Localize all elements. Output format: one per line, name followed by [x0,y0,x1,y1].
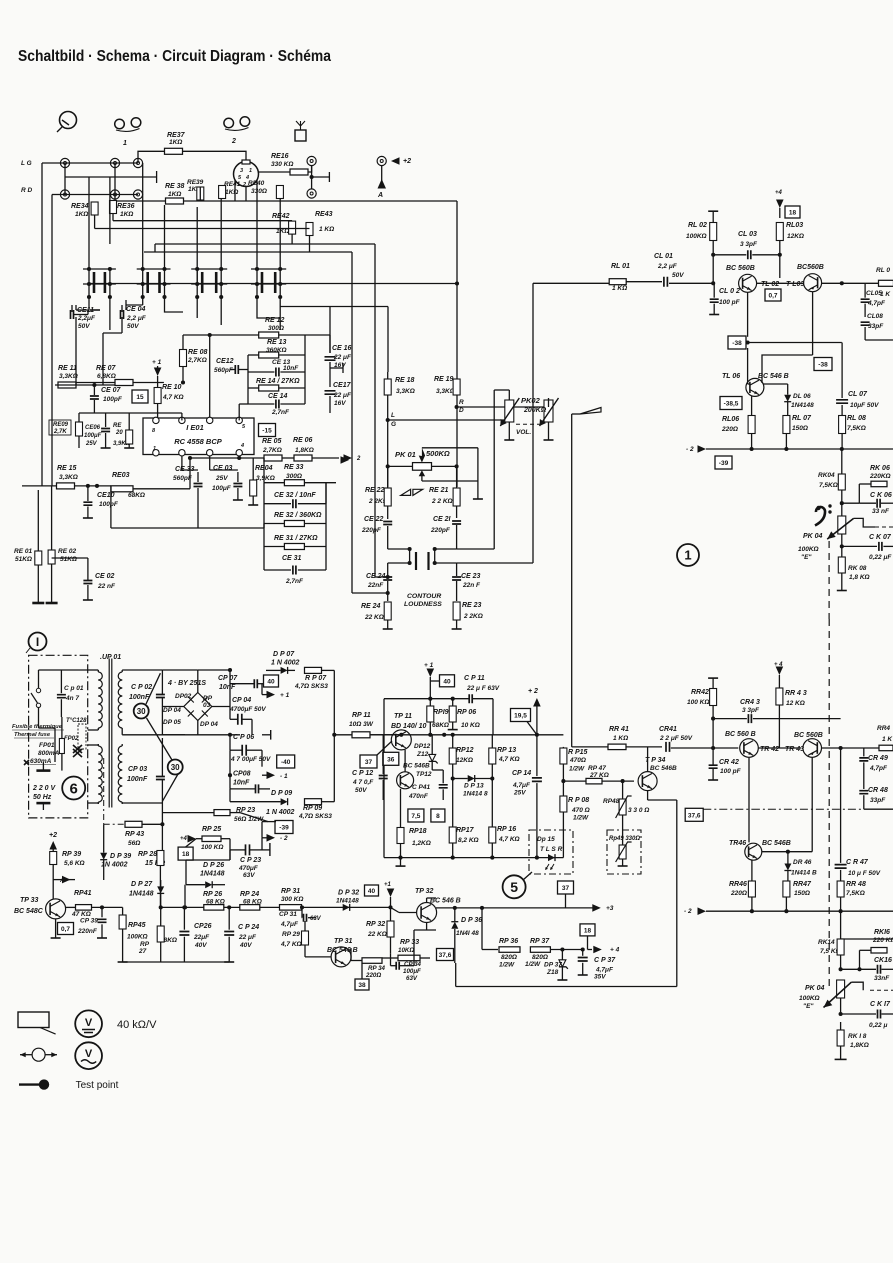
box 7.5 [408,809,424,822]
box 18 ps [178,847,193,860]
svg-text:CR41: CR41 [659,726,677,733]
svg-text:220 KΩ: 220 KΩ [872,937,893,944]
svg-text:4,7 KΩ: 4,7 KΩ [498,756,520,763]
svg-text:- 2: - 2 [686,446,694,453]
svg-text:2 2 μF 50V: 2 2 μF 50V [659,735,693,742]
bass clef symbol [815,507,825,526]
svg-text:470μF: 470μF [238,865,259,872]
svg-text:2 2KΩ: 2 2KΩ [463,613,483,620]
svg-text:RE 12: RE 12 [265,317,285,324]
svg-text:D P 27: D P 27 [131,881,153,888]
svg-text:RE 18: RE 18 [395,377,415,384]
svg-text:220Ω: 220Ω [721,426,738,433]
svg-text:22 μ F 63V: 22 μ F 63V [466,685,500,692]
svg-text:T L03: T L03 [786,281,804,288]
wire fb radio [746,342,842,344]
legend picture tube symbol [18,1012,49,1028]
wire right jacks [311,166,313,189]
svg-text:R P 08: R P 08 [568,797,589,804]
tape symbol 2 [224,118,234,128]
svg-text:RE 21: RE 21 [429,487,449,494]
resistor RP07 [305,667,322,673]
svg-text:PK 01: PK 01 [395,450,416,459]
svg-text:RP 33: RP 33 [400,939,419,946]
wire switch feed verticals [94,215,96,229]
svg-text:10 μ F 50V: 10 μ F 50V [848,870,881,877]
svg-text:CE 14: CE 14 [268,393,288,400]
svg-text:4,7μF: 4,7μF [595,967,614,974]
svg-text:33pF: 33pF [870,797,886,804]
svg-text:63V: 63V [243,872,255,879]
svg-text:40V: 40V [239,942,252,949]
svg-text:CE 33: CE 33 [175,466,195,473]
svg-text:820Ω: 820Ω [532,954,548,961]
svg-text:40 kΩ/V: 40 kΩ/V [117,1019,157,1031]
svg-text:37: 37 [365,759,373,766]
svg-text:6: 6 [70,780,78,797]
svg-text:RE39: RE39 [187,179,204,186]
box 0.7 [765,289,781,301]
svg-text:1N 4002: 1N 4002 [101,862,128,869]
svg-text:TR 43: TR 43 [785,746,804,753]
svg-text:2,7nF: 2,7nF [271,409,290,416]
svg-text:D P 09: D P 09 [271,790,292,797]
svg-text:RK14: RK14 [818,939,835,946]
svg-text:22 KΩ: 22 KΩ [364,614,384,621]
svg-text:RP 26: RP 26 [203,891,222,898]
wire re42 feeds [113,220,292,222]
box 8 [431,809,445,822]
svg-text:1/2W: 1/2W [569,766,585,773]
svg-text:1 N 4002: 1 N 4002 [271,660,300,667]
wire long row y201 [115,200,457,202]
svg-text:RR 41: RR 41 [609,726,629,733]
wire rr41 row [571,414,573,747]
svg-text:3,3KΩ: 3,3KΩ [59,373,78,380]
svg-text:150Ω: 150Ω [794,890,810,897]
svg-text:CE 23: CE 23 [461,573,481,580]
svg-text:+4: +4 [180,836,188,842]
svg-text:33pF: 33pF [868,323,884,330]
svg-text:12 KΩ: 12 KΩ [786,700,805,707]
svg-text:37,6: 37,6 [688,812,701,819]
svg-text:BC 560 B: BC 560 B [725,731,756,738]
svg-text:220KΩ: 220KΩ [869,473,891,480]
jack socket right R [307,189,316,198]
svg-text:5,6 KΩ: 5,6 KΩ [64,860,85,867]
svg-text:DP02: DP02 [175,693,192,700]
svg-text:40: 40 [368,888,376,895]
svg-text:22μF: 22μF [193,934,210,941]
svg-text:BC 546B: BC 546B [403,763,430,770]
wire secondary [122,669,162,671]
svg-text:RK 08: RK 08 [848,565,867,572]
svg-text:CE 32 / 10nF: CE 32 / 10nF [274,492,316,499]
svg-text:03: 03 [203,702,211,709]
svg-text:CP 34: CP 34 [404,961,422,968]
svg-text:C P41: C P41 [412,784,430,791]
svg-text:1N4148: 1N4148 [129,891,154,898]
svg-text:CL 0 2: CL 0 2 [719,288,740,295]
svg-text:C P 06: C P 06 [233,734,254,741]
svg-text:G: G [391,421,396,428]
box 39 radio [715,456,732,469]
svg-text:63V: 63V [406,975,418,982]
svg-text:D P 26: D P 26 [203,862,224,869]
svg-text:VOL.: VOL. [516,429,531,436]
svg-text:CE 2I: CE 2I [433,516,452,523]
svg-text:100pF: 100pF [103,396,123,403]
svg-text:CE 07: CE 07 [101,387,122,394]
svg-text:1N4I 48: 1N4I 48 [456,930,479,937]
svg-text:RKI6: RKI6 [874,929,890,936]
svg-text:22 μF: 22 μF [333,354,352,361]
svg-text:22 KΩ: 22 KΩ [367,931,387,938]
svg-text:300 KΩ: 300 KΩ [281,896,303,903]
svg-text:RK 06: RK 06 [870,465,890,472]
svg-text:CL 03: CL 03 [738,231,757,238]
svg-text:.UP 01: .UP 01 [100,654,121,661]
svg-text:56Ω: 56Ω [128,840,140,847]
wire pk04 lower down [840,998,842,1014]
loudness switch [388,548,410,550]
wire ic feedback verticals [189,458,191,489]
svg-text:68KΩ: 68KΩ [128,492,145,499]
terminal +2 [377,156,386,165]
wire ps bus [333,670,335,801]
wire re12 [183,334,259,336]
svg-text:3 3pF: 3 3pF [740,241,758,248]
wire input row L [60,162,138,164]
svg-text:1,2KΩ: 1,2KΩ [412,840,431,847]
wire RE38 stub [114,163,116,201]
wire feedback block [247,355,249,404]
svg-text:RL 08: RL 08 [847,415,866,422]
svg-text:DP 04: DP 04 [200,721,218,728]
svg-text:20: 20 [115,430,123,436]
svg-text:100KΩ: 100KΩ [127,934,148,941]
wire DIN pins down [234,180,236,201]
legend test point symbol [19,1083,40,1085]
svg-text:RP12: RP12 [456,747,474,754]
svg-text:RE 07: RE 07 [96,365,117,372]
legend arrows symbol [32,1048,45,1061]
svg-text:BC 546B: BC 546B [762,840,791,847]
svg-text:4,7Ω SKS3: 4,7Ω SKS3 [298,813,332,820]
svg-text:+ 1: + 1 [424,662,434,669]
svg-text:37,6: 37,6 [439,952,452,959]
svg-text:CP 39: CP 39 [80,918,98,925]
svg-text:22n F: 22n F [462,582,481,589]
svg-text:+1: +1 [384,882,392,888]
svg-text:-38: -38 [818,362,828,369]
svg-text:4,7μF: 4,7μF [280,921,299,928]
svg-text:1 K: 1 K [882,736,893,743]
svg-text:3,3KΩ: 3,3KΩ [436,388,455,395]
wire regulator frame [354,699,430,858]
svg-text:RE 05: RE 05 [262,438,282,445]
svg-text:150Ω: 150Ω [792,425,808,432]
svg-text:RE 10: RE 10 [162,384,182,391]
svg-text:CE06: CE06 [85,425,101,431]
svg-text:100μF: 100μF [403,968,421,975]
svg-text:50 Hz: 50 Hz [33,794,52,801]
svg-text:"E": "E" [801,554,812,561]
svg-text:RP 06: RP 06 [457,709,476,716]
tape symbol 1 [115,119,125,129]
wire re05 re06 [239,457,264,459]
svg-text:DL 06: DL 06 [793,393,811,400]
svg-text:CE 03: CE 03 [213,465,233,472]
diode DP39 [100,853,107,860]
wire switch row2 long [89,283,457,285]
svg-text:RR 48: RR 48 [846,881,866,888]
svg-text:500KΩ: 500KΩ [426,449,450,458]
svg-text:300Ω: 300Ω [268,325,284,332]
box -38 right [814,358,832,371]
svg-text:100μF: 100μF [84,433,102,439]
jack socket L left [60,158,69,167]
svg-text:560pF: 560pF [214,367,234,374]
svg-text:4,7μF: 4,7μF [512,782,531,789]
svg-text:10nF: 10nF [283,365,299,372]
svg-text:RE 14 / 27KΩ: RE 14 / 27KΩ [256,378,300,385]
svg-text:1,8KΩ: 1,8KΩ [850,1042,869,1049]
svg-text:36: 36 [387,756,395,763]
svg-text:7,5: 7,5 [411,813,420,820]
svg-text:8: 8 [436,813,440,820]
svg-text:19,5: 19,5 [514,713,527,720]
wire RE37 loop [138,151,165,163]
jack socket tape1 R [110,190,119,199]
svg-text:+2: +2 [403,158,411,165]
arrow -2 ps [267,834,276,842]
svg-text:100 KΩ: 100 KΩ [201,844,223,851]
svg-text:RE 33: RE 33 [284,464,304,471]
svg-text:4,7 KΩ: 4,7 KΩ [498,836,520,843]
svg-text:100pF: 100pF [99,501,119,508]
svg-text:220nF: 220nF [77,928,98,935]
svg-text:1KΩ: 1KΩ [169,139,182,146]
svg-text:+ 2: + 2 [528,688,538,695]
svg-text:CP 07: CP 07 [218,675,238,682]
svg-text:0,22 μF: 0,22 μF [869,554,892,561]
svg-text:40V: 40V [194,942,207,949]
svg-text:CR 48: CR 48 [868,787,888,794]
svg-text:4 · BY 251S: 4 · BY 251S [167,680,206,687]
svg-text:4,7Ω SKS3: 4,7Ω SKS3 [294,683,328,690]
svg-text:100 KΩ: 100 KΩ [687,699,709,706]
svg-text:V: V [85,1017,93,1029]
svg-text:Test point: Test point [76,1080,119,1091]
svg-text:330 KΩ: 330 KΩ [271,161,293,168]
svg-text:RE40: RE40 [248,180,265,187]
svg-text:- 2: - 2 [280,835,288,842]
svg-text:220Ω: 220Ω [730,890,747,897]
svg-text:CP26: CP26 [194,923,212,930]
svg-text:RE34: RE34 [71,203,89,210]
svg-text:RR47: RR47 [793,881,812,888]
svg-text:2: 2 [231,138,236,145]
svg-text:30: 30 [171,763,180,772]
svg-text:25V: 25V [513,790,526,797]
wire L bus from matrix [280,306,388,308]
dashed link lower [828,619,830,991]
svg-text:V: V [85,1048,93,1060]
svg-text:RE 11: RE 11 [58,365,77,372]
svg-text:7,5KΩ: 7,5KΩ [819,482,838,489]
svg-text:2: 2 [356,456,361,462]
potentiometer PK04 lower [837,980,845,998]
box 40 bottom [365,885,379,896]
svg-text:RE 22: RE 22 [365,487,385,494]
svg-text:1,8 KΩ: 1,8 KΩ [849,574,870,581]
svg-text:CONTOUR: CONTOUR [407,593,441,600]
svg-text:RE 31 / 27KΩ: RE 31 / 27KΩ [274,535,318,542]
svg-text:51KΩ: 51KΩ [15,556,32,563]
wire R bus vertical [456,201,458,284]
arrow out 2 [344,454,353,462]
svg-text:CP08: CP08 [233,771,251,778]
svg-text:FP02: FP02 [64,736,79,742]
svg-text:4,7pF: 4,7pF [869,765,888,772]
svg-text:35V: 35V [594,974,606,981]
svg-text:2,7KΩ: 2,7KΩ [262,447,282,454]
svg-text:R P15: R P15 [568,749,588,756]
svg-text:RP 31: RP 31 [281,888,300,895]
arrow +1 ps [267,691,276,699]
svg-text:4,7 KΩ: 4,7 KΩ [162,394,184,401]
svg-text:470Ω: 470Ω [569,757,586,764]
box -38.5 [720,397,742,410]
svg-text:12KΩ: 12KΩ [456,757,473,764]
svg-text:- 1: - 1 [280,773,288,780]
svg-text:50V: 50V [78,323,90,330]
svg-text:RP 36: RP 36 [499,938,518,945]
svg-text:3 3 0 Ω: 3 3 0 Ω [628,807,649,814]
svg-text:RE 38: RE 38 [165,183,185,190]
svg-text:100 pF: 100 pF [720,768,742,775]
wire re15 row [22,485,57,487]
svg-text:CL 07: CL 07 [848,391,868,398]
svg-text:1N414 8: 1N414 8 [463,791,488,798]
svg-text:RP45: RP45 [128,922,146,929]
svg-text:1: 1 [153,446,156,452]
wire tl06 [747,348,749,384]
wire reg bottom [384,857,563,859]
wire pk02 tops [508,390,510,400]
svg-text:-38,5: -38,5 [724,401,739,408]
svg-text:C R 47: C R 47 [846,859,869,866]
svg-text:2 2 0 V: 2 2 0 V [32,785,57,792]
svg-text:1KΩ: 1KΩ [168,191,181,198]
svg-text:RE43: RE43 [315,211,333,218]
wire ce04 down [121,317,123,333]
svg-text:RP 16: RP 16 [497,826,516,833]
svg-text:C p 01: C p 01 [64,685,84,692]
svg-text:RP 37: RP 37 [530,938,550,945]
svg-text:CE 31: CE 31 [282,555,302,562]
switch matrix contacts [83,268,116,270]
svg-text:30: 30 [137,707,146,716]
svg-text:DR 46: DR 46 [793,859,812,866]
svg-text:18: 18 [182,851,190,858]
svg-text:1N4148: 1N4148 [791,402,814,409]
svg-text:RP 39: RP 39 [62,851,81,858]
wire rp43 row [104,823,125,825]
wire tp34 emitter down [647,791,649,800]
wire preamp input row [55,384,115,386]
svg-text:5: 5 [510,879,518,895]
svg-text:C P 23: C P 23 [240,857,261,864]
switch wiper lines [146,673,160,704]
svg-text:6,8KΩ: 6,8KΩ [97,373,116,380]
wire rk bus [840,911,842,939]
svg-text:1 KΩ: 1 KΩ [613,735,628,742]
svg-text:RE 15: RE 15 [57,465,77,472]
svg-text:12KΩ: 12KΩ [787,233,804,240]
legend AC voltmeter symbol [75,1042,102,1069]
svg-text:16V: 16V [334,400,346,407]
svg-text:1,8KΩ: 1,8KΩ [295,447,314,454]
wire pk04 upper down [841,534,843,557]
svg-text:0,22 μ: 0,22 μ [869,1022,887,1029]
svg-text:RR42: RR42 [691,689,709,696]
svg-text:RP41: RP41 [74,890,92,897]
wire fb bus [263,524,265,547]
wire pk02 grounds [508,422,510,440]
svg-text:BD 140/ 10: BD 140/ 10 [391,723,427,730]
svg-text:TP 32: TP 32 [415,888,434,895]
arrow A ps [62,876,71,884]
svg-text:0,7: 0,7 [768,293,777,300]
phono input symbol [60,112,77,129]
svg-text:DP12: DP12 [414,743,431,750]
diode DL06 [784,395,791,402]
svg-text:630mA: 630mA [30,758,52,765]
svg-text:C K 06: C K 06 [870,492,892,499]
arrow -2 left [341,456,350,464]
svg-text:4n 7: 4n 7 [65,695,79,702]
box 18 out [580,924,595,936]
svg-text:CP 03: CP 03 [128,766,147,773]
svg-text:-39: -39 [719,460,729,467]
svg-text:4 7 00μF 50V: 4 7 00μF 50V [230,756,271,763]
svg-text:DP 05: DP 05 [163,719,181,726]
box 37.6 mid [685,808,703,821]
svg-text:CE12: CE12 [216,358,234,365]
svg-text:100μF: 100μF [212,485,232,492]
svg-text:RL03: RL03 [786,222,803,229]
wire rp36 row [481,908,483,950]
diode DR46 [784,864,791,871]
svg-text:BC 560B: BC 560B [726,265,755,272]
svg-text:TL 06: TL 06 [722,373,740,380]
legend DC voltmeter symbol [75,1010,102,1037]
wire k bus vertical [841,449,843,474]
svg-text:RP 24: RP 24 [240,891,259,898]
svg-text:4,7 KΩ: 4,7 KΩ [280,941,302,948]
jack socket aux L [133,158,142,167]
svg-text:40: 40 [267,679,275,686]
svg-text:L G: L G [21,160,32,167]
box 38 bottom [355,979,369,990]
svg-text:RE 06: RE 06 [293,437,313,444]
svg-text:RE 23: RE 23 [462,602,482,609]
svg-text:TP12: TP12 [416,771,432,778]
svg-text:A: A [59,877,65,884]
wire tr46 [762,851,812,853]
